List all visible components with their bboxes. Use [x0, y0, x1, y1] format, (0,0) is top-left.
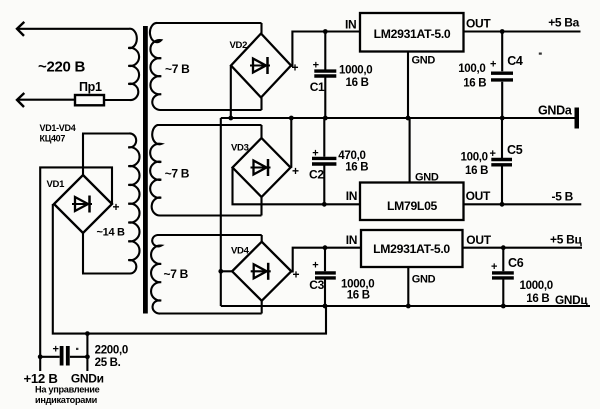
wire winding to VD3 bottom vertex	[260, 197, 262, 216]
svg-text:GND: GND	[412, 273, 436, 285]
wire U1 GND pin	[407, 52, 409, 119]
svg-text:LM2931AT-5.0: LM2931AT-5.0	[374, 27, 451, 41]
svg-text:+: +	[312, 259, 318, 271]
junction node C3/IN3	[323, 245, 328, 250]
wire U2 OUT to -5 В	[464, 203, 582, 205]
svg-text:~7 В: ~7 В	[165, 62, 190, 76]
bridge rectifier VD2	[231, 34, 291, 98]
svg-text:индикаторами: индикаторами	[35, 395, 98, 405]
svg-text:LM79L05: LM79L05	[387, 199, 438, 213]
GNDc rail	[221, 305, 590, 307]
scan speck near C4	[539, 53, 542, 55]
wire VD1 bottom vertex to winding	[82, 233, 84, 273]
svg-text:16 В: 16 В	[347, 289, 370, 301]
svg-text:LM2931AT-5.0: LM2931AT-5.0	[373, 242, 450, 256]
scan speck near 2200 cap	[76, 348, 78, 350]
svg-text:OUT: OUT	[466, 233, 491, 247]
wire VD3 minus to regulator U2 IN	[233, 168, 361, 205]
capacitor C4	[491, 32, 513, 119]
wire winding to VD4 bottom vertex	[261, 301, 263, 314]
capacitor C2	[312, 118, 336, 204]
svg-text:GNDи: GNDи	[71, 372, 104, 386]
svg-text:C6: C6	[508, 256, 524, 270]
junction node GNDи top	[85, 331, 90, 336]
junction node C5 top on GNDa	[500, 116, 505, 121]
svg-text:1000,0: 1000,0	[520, 280, 553, 292]
transformer secondary winding ~7 В (middle)	[150, 125, 261, 216]
svg-text:GND: GND	[415, 172, 439, 184]
junction node cap 2200 right	[85, 354, 90, 359]
junction node C6 bottom on GNDc	[501, 304, 506, 309]
wire VD1 minus to GNDc rail	[53, 204, 326, 334]
wire GNDa to GNDc vertical link	[220, 118, 222, 306]
svg-text:~220 В: ~220 В	[38, 59, 85, 76]
junction node C2 top on GNDa	[323, 116, 328, 121]
svg-text:IN: IN	[346, 233, 357, 247]
wire winding to VD4 top vertex	[261, 235, 263, 242]
transformer secondary winding ~7 В (top)	[150, 23, 262, 110]
junction node +12V / cap 2200 left	[38, 354, 43, 359]
wire VD2 minus to GNDa rail	[230, 66, 232, 119]
svg-text:C4: C4	[507, 54, 523, 68]
transformer core	[143, 26, 148, 314]
wire AC line top + transformer primary winding	[17, 29, 139, 100]
wire winding top to VD2 top vertex	[260, 23, 262, 34]
AC input arrow top	[17, 22, 24, 36]
svg-text:IN: IN	[346, 189, 357, 203]
transformer secondary winding ~7 В (bottom)	[151, 235, 262, 314]
junction node C2 bottom on -5V	[322, 202, 327, 207]
wire VD4 minus to GND link	[221, 270, 232, 272]
svg-text:C3: C3	[309, 278, 324, 292]
svg-text:GND: GND	[412, 55, 436, 67]
svg-text:1000,0: 1000,0	[339, 64, 372, 76]
GNDa rail	[221, 117, 575, 119]
bridge rectifier VD1	[54, 175, 112, 233]
svg-text:16 В: 16 В	[465, 165, 488, 177]
svg-text:OUT: OUT	[466, 189, 491, 203]
GNDa terminal bar	[575, 108, 580, 129]
svg-text:VD1-VD4: VD1-VD4	[40, 123, 76, 133]
svg-text:+5 Ba: +5 Ba	[548, 16, 579, 30]
regulator U1 LM2931AT-5.0	[360, 13, 464, 52]
svg-text:VD1: VD1	[47, 179, 66, 190]
svg-text:IN: IN	[345, 18, 356, 32]
svg-text:~7 В: ~7 В	[165, 167, 190, 181]
fuse Пр1	[75, 95, 104, 105]
svg-text:VD3: VD3	[231, 143, 249, 154]
junction node C1/IN	[323, 29, 328, 34]
svg-text:100,0: 100,0	[458, 63, 485, 75]
junction node VD2 minus on GNDa	[228, 116, 233, 121]
junction node C3 bottom on GNDc	[323, 304, 328, 309]
svg-text:+: +	[313, 60, 319, 72]
wire VD1 plus to +12 В	[40, 167, 112, 371]
svg-text:GNDa: GNDa	[538, 104, 573, 118]
svg-text:C5: C5	[507, 143, 523, 157]
svg-text:+5 Вц: +5 Вц	[550, 232, 582, 246]
capacitor 2200,0 25 В (electrolytic, +12 В filter)	[40, 346, 87, 366]
junction node VD3 plus on GNDa	[289, 116, 294, 121]
svg-text:+: +	[490, 148, 496, 160]
svg-text:На управление: На управление	[35, 385, 100, 395]
svg-text:+: +	[312, 148, 318, 160]
svg-text:~7 В: ~7 В	[164, 267, 189, 281]
bridge rectifier VD4	[232, 242, 291, 301]
svg-text:470,0: 470,0	[338, 150, 365, 162]
svg-text:25 В.: 25 В.	[95, 357, 121, 369]
wire VD4 plus to regulator U3 IN	[291, 248, 361, 272]
svg-text:+: +	[113, 200, 120, 214]
wire winding bottom to VD2 bottom vertex	[260, 98, 262, 111]
svg-text:+: +	[53, 344, 59, 356]
wire U2 GND pin	[409, 118, 411, 183]
bridge rectifier VD3	[233, 138, 291, 197]
svg-text:+: +	[491, 261, 497, 273]
wire U3 OUT to +5 Вц	[463, 247, 583, 249]
svg-text:100,0: 100,0	[461, 152, 488, 164]
wire VD2 plus to regulator U1 IN	[291, 32, 360, 66]
svg-text:Пр1: Пр1	[79, 80, 102, 94]
capacitor C3	[315, 248, 336, 306]
junction node C5 bottom on -5V	[500, 202, 505, 207]
svg-text:C2: C2	[309, 168, 324, 182]
junction node U1 GND on GNDa	[406, 116, 411, 121]
wire winding to VD3 top vertex	[260, 125, 262, 138]
capacitor C1	[314, 32, 336, 119]
wire GND wire to GNDи terminal	[86, 334, 88, 371]
wire VD3 plus to GNDa rail	[290, 118, 292, 168]
junction node C6/OUT3	[501, 245, 506, 250]
svg-text:GNDц: GNDц	[555, 293, 588, 307]
capacitor C6	[492, 248, 514, 306]
svg-text:16 В: 16 В	[463, 77, 486, 89]
transformer secondary winding ~14 В (left)	[82, 133, 140, 273]
svg-text:+: +	[490, 59, 496, 71]
wire U1 OUT to +5 Ba	[464, 30, 581, 32]
svg-text:-5 В: -5 В	[552, 190, 574, 204]
svg-text:КЦ407: КЦ407	[40, 134, 66, 144]
svg-text:~14 В: ~14 В	[97, 227, 126, 239]
AC input arrow bottom	[17, 93, 24, 107]
junction node VD4 minus on GND link	[218, 269, 223, 274]
regulator U3 LM2931AT-5.0	[361, 230, 463, 267]
svg-text:C1: C1	[310, 80, 325, 94]
svg-text:+: +	[292, 164, 299, 178]
svg-text:2200,0: 2200,0	[95, 345, 128, 357]
wire AC line bottom	[17, 99, 75, 101]
wire VD1 top vertex to winding	[82, 134, 84, 176]
svg-text:VD2: VD2	[230, 40, 248, 51]
svg-text:16 В: 16 В	[346, 77, 369, 89]
svg-text:16 В: 16 В	[345, 162, 368, 174]
junction node U3 GND on GNDc	[406, 304, 411, 309]
wire U3 GND pin	[407, 267, 409, 306]
regulator U2 LM79L05	[360, 183, 464, 221]
capacitor C5	[491, 118, 512, 204]
junction node C4/OUT	[500, 29, 505, 34]
svg-text:VD4: VD4	[231, 246, 250, 257]
svg-text:16 В: 16 В	[526, 293, 549, 305]
svg-text:OUT: OUT	[466, 17, 491, 31]
